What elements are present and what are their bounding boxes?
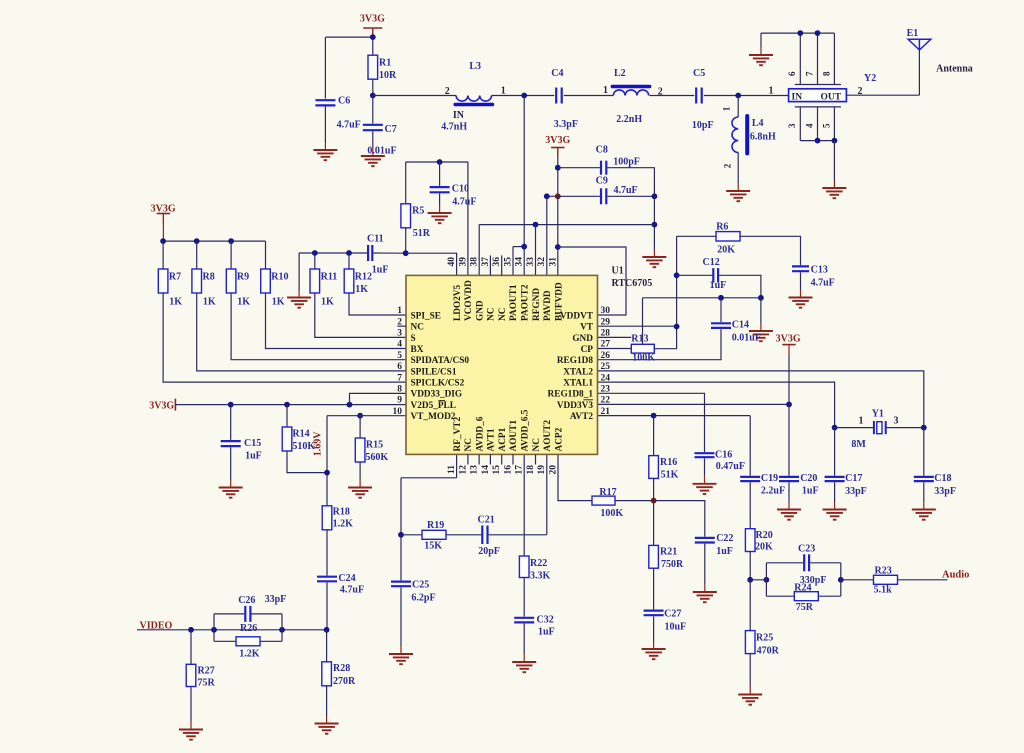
- svg-text:VDDVT: VDDVT: [560, 311, 594, 321]
- svg-text:R7: R7: [169, 272, 181, 283]
- svg-text:NC: NC: [464, 438, 474, 451]
- svg-text:BUFVDD: BUFVDD: [554, 282, 564, 321]
- svg-text:17: 17: [515, 465, 525, 475]
- svg-text:19: 19: [537, 465, 547, 475]
- svg-text:1: 1: [397, 306, 402, 316]
- svg-text:7: 7: [397, 373, 402, 383]
- svg-text:2: 2: [723, 163, 733, 168]
- svg-text:20: 20: [548, 465, 558, 475]
- svg-text:51R: 51R: [413, 228, 431, 239]
- svg-text:R11: R11: [321, 272, 338, 283]
- svg-text:R15: R15: [366, 440, 383, 451]
- svg-text:1.2K: 1.2K: [333, 519, 354, 530]
- svg-text:R26: R26: [240, 623, 257, 634]
- svg-text:R1: R1: [379, 58, 391, 69]
- svg-text:51K: 51K: [661, 470, 679, 481]
- svg-text:RF_VT2: RF_VT2: [453, 417, 463, 452]
- svg-text:REG1D8_1: REG1D8_1: [548, 390, 594, 400]
- svg-text:4.7uF: 4.7uF: [337, 120, 361, 131]
- svg-text:R28: R28: [333, 663, 350, 674]
- svg-text:40: 40: [447, 257, 457, 267]
- svg-text:C18: C18: [934, 473, 951, 484]
- svg-text:R10: R10: [271, 272, 288, 283]
- svg-text:SPI_SE: SPI_SE: [411, 311, 442, 321]
- svg-text:0.01uF: 0.01uF: [732, 333, 761, 344]
- svg-text:100K: 100K: [632, 353, 655, 364]
- svg-text:R24: R24: [794, 583, 811, 594]
- svg-text:470R: 470R: [757, 646, 780, 657]
- svg-text:1uF: 1uF: [802, 486, 819, 497]
- svg-text:16: 16: [503, 465, 513, 475]
- svg-text:C21: C21: [478, 515, 495, 526]
- svg-text:33pF: 33pF: [934, 486, 956, 497]
- svg-text:C13: C13: [811, 265, 828, 276]
- svg-text:1K: 1K: [203, 297, 216, 308]
- svg-text:3: 3: [787, 123, 797, 128]
- svg-text:ACP2: ACP2: [554, 427, 564, 451]
- svg-text:1uF: 1uF: [245, 451, 262, 462]
- svg-text:20K: 20K: [717, 245, 735, 256]
- svg-text:L4: L4: [752, 118, 764, 129]
- svg-text:10pF: 10pF: [692, 120, 714, 131]
- svg-text:11: 11: [447, 465, 457, 474]
- svg-text:XTAL1: XTAL1: [563, 379, 593, 389]
- svg-text:C5: C5: [693, 68, 705, 79]
- svg-text:36: 36: [492, 257, 502, 267]
- svg-text:3V3G: 3V3G: [776, 333, 801, 344]
- svg-text:31: 31: [548, 257, 558, 267]
- svg-text:1K: 1K: [169, 297, 182, 308]
- svg-text:2.2nH: 2.2nH: [616, 114, 642, 125]
- svg-text:C23: C23: [798, 544, 815, 555]
- svg-text:AVT1: AVT1: [487, 428, 497, 451]
- svg-text:15: 15: [492, 465, 502, 475]
- svg-text:R21: R21: [660, 547, 677, 558]
- svg-text:75R: 75R: [796, 602, 814, 613]
- svg-text:VT_MOD2: VT_MOD2: [411, 412, 456, 422]
- svg-text:PAOUT1: PAOUT1: [509, 284, 519, 321]
- svg-text:C20: C20: [800, 473, 817, 484]
- svg-text:10R: 10R: [379, 70, 397, 81]
- svg-text:R16: R16: [660, 457, 677, 468]
- svg-text:IN: IN: [792, 92, 803, 102]
- svg-text:38: 38: [470, 257, 480, 267]
- svg-text:R6: R6: [716, 222, 728, 233]
- svg-text:C8: C8: [596, 145, 608, 156]
- svg-text:C7: C7: [385, 124, 397, 135]
- svg-text:S: S: [411, 334, 416, 344]
- svg-text:75R: 75R: [198, 678, 216, 689]
- svg-text:1K: 1K: [237, 297, 250, 308]
- svg-text:6: 6: [397, 362, 402, 372]
- svg-text:1uF: 1uF: [710, 280, 727, 291]
- svg-text:C26: C26: [238, 595, 255, 606]
- svg-text:20K: 20K: [755, 542, 773, 553]
- svg-text:5.1k: 5.1k: [874, 585, 893, 596]
- svg-text:26: 26: [601, 351, 611, 361]
- svg-text:C4: C4: [551, 68, 563, 79]
- svg-text:12: 12: [458, 465, 468, 475]
- svg-text:6.8nH: 6.8nH: [750, 132, 776, 143]
- svg-text:100K: 100K: [600, 508, 623, 519]
- svg-text:LDO2V5: LDO2V5: [453, 284, 463, 321]
- svg-text:VDD33_DIG: VDD33_DIG: [411, 390, 463, 400]
- svg-text:13: 13: [470, 465, 480, 475]
- svg-text:34: 34: [515, 257, 525, 267]
- svg-text:39: 39: [458, 257, 468, 267]
- svg-text:28: 28: [601, 329, 611, 339]
- svg-text:R17: R17: [599, 487, 616, 498]
- svg-text:U1: U1: [612, 266, 624, 277]
- svg-text:9: 9: [397, 396, 402, 406]
- svg-text:27: 27: [601, 340, 611, 350]
- svg-text:15K: 15K: [424, 541, 442, 552]
- svg-text:R23: R23: [875, 566, 892, 577]
- svg-text:35: 35: [503, 257, 513, 267]
- svg-text:10: 10: [393, 407, 403, 417]
- svg-text:RTC6705: RTC6705: [612, 278, 653, 289]
- svg-text:560K: 560K: [365, 452, 388, 463]
- svg-text:1: 1: [501, 86, 506, 97]
- svg-text:4.7uF: 4.7uF: [811, 278, 835, 289]
- svg-text:8: 8: [397, 385, 402, 395]
- svg-text:0.01uF: 0.01uF: [367, 146, 396, 157]
- svg-text:1.69V: 1.69V: [313, 431, 324, 457]
- svg-text:C16: C16: [715, 450, 732, 461]
- svg-text:24: 24: [601, 373, 611, 383]
- svg-text:R20: R20: [756, 530, 773, 541]
- svg-text:C17: C17: [845, 473, 862, 484]
- svg-text:3.3K: 3.3K: [530, 571, 551, 582]
- svg-text:CP: CP: [581, 345, 594, 355]
- svg-text:C19: C19: [761, 473, 778, 484]
- svg-text:270R: 270R: [333, 676, 356, 687]
- svg-text:ACP1: ACP1: [498, 427, 508, 451]
- svg-text:1uF: 1uF: [716, 546, 733, 557]
- svg-text:10uF: 10uF: [665, 622, 687, 633]
- svg-text:R8: R8: [203, 272, 215, 283]
- svg-text:25: 25: [601, 362, 611, 372]
- svg-text:100pF: 100pF: [613, 157, 640, 168]
- svg-text:6.2pF: 6.2pF: [411, 593, 435, 604]
- svg-text:33pF: 33pF: [265, 594, 287, 605]
- svg-text:1uF: 1uF: [372, 265, 389, 276]
- svg-text:R5: R5: [412, 206, 424, 217]
- svg-text:5: 5: [397, 351, 402, 361]
- svg-text:V2D5_PLL: V2D5_PLL: [411, 401, 456, 411]
- svg-text:VT: VT: [580, 323, 594, 333]
- svg-text:XTAL2: XTAL2: [563, 367, 593, 377]
- svg-text:22: 22: [601, 396, 611, 406]
- svg-text:21: 21: [601, 407, 611, 417]
- svg-text:AVDD_6.5: AVDD_6.5: [521, 409, 531, 451]
- svg-text:R13: R13: [631, 334, 648, 345]
- svg-text:Audio: Audio: [942, 570, 969, 581]
- svg-text:SPILE/CS1: SPILE/CS1: [411, 367, 457, 377]
- svg-text:L3: L3: [469, 61, 481, 72]
- svg-text:Y2: Y2: [864, 73, 876, 84]
- svg-text:VDD3V3: VDD3V3: [557, 401, 594, 411]
- svg-text:Antenna: Antenna: [936, 64, 973, 75]
- svg-text:SPIDATA/CS0: SPIDATA/CS0: [411, 356, 470, 366]
- svg-text:2: 2: [445, 86, 450, 97]
- svg-text:18: 18: [526, 465, 536, 475]
- svg-text:R27: R27: [198, 666, 215, 677]
- svg-text:REG1D8: REG1D8: [557, 356, 594, 366]
- svg-text:PAOUT2: PAOUT2: [521, 284, 531, 321]
- svg-text:C11: C11: [367, 234, 384, 245]
- svg-text:1uF: 1uF: [538, 627, 555, 638]
- svg-text:1K: 1K: [355, 284, 368, 295]
- svg-text:2: 2: [658, 87, 663, 98]
- svg-text:6: 6: [787, 71, 797, 76]
- svg-text:C15: C15: [244, 438, 261, 449]
- svg-text:3.3pF: 3.3pF: [554, 119, 578, 130]
- svg-text:1: 1: [722, 106, 732, 111]
- svg-text:OUT: OUT: [821, 92, 842, 102]
- svg-text:R22: R22: [530, 558, 547, 569]
- svg-text:750R: 750R: [661, 559, 684, 570]
- svg-text:3V3G: 3V3G: [149, 401, 174, 412]
- svg-text:BX: BX: [411, 345, 424, 355]
- svg-text:NC: NC: [487, 308, 497, 321]
- svg-text:33: 33: [526, 257, 536, 267]
- svg-text:4: 4: [804, 123, 814, 128]
- svg-text:RFGND: RFGND: [532, 288, 542, 321]
- svg-text:GND: GND: [572, 334, 593, 344]
- svg-text:AVDD_6: AVDD_6: [475, 416, 485, 451]
- svg-text:37: 37: [481, 257, 491, 267]
- svg-text:C10: C10: [452, 184, 469, 195]
- svg-text:VCOVDD: VCOVDD: [464, 280, 474, 321]
- svg-text:3V3G: 3V3G: [151, 203, 176, 214]
- svg-text:1K: 1K: [272, 297, 285, 308]
- svg-text:4.7uF: 4.7uF: [340, 585, 364, 596]
- svg-text:8M: 8M: [851, 439, 866, 450]
- svg-text:E1: E1: [907, 28, 919, 39]
- svg-text:7: 7: [804, 71, 814, 76]
- svg-text:C9: C9: [596, 176, 608, 187]
- svg-text:C32: C32: [537, 615, 554, 626]
- svg-text:4.7uF: 4.7uF: [614, 185, 638, 196]
- svg-text:L2: L2: [614, 68, 626, 79]
- svg-text:23: 23: [601, 385, 611, 395]
- svg-text:C27: C27: [664, 609, 681, 620]
- svg-text:4.7nH: 4.7nH: [441, 122, 467, 133]
- svg-text:14: 14: [481, 465, 491, 475]
- svg-text:3V3G: 3V3G: [360, 14, 385, 25]
- svg-text:C14: C14: [732, 320, 749, 331]
- svg-text:Y1: Y1: [872, 409, 884, 420]
- svg-text:4: 4: [397, 340, 402, 350]
- svg-text:4.7uF: 4.7uF: [452, 197, 476, 208]
- svg-text:29: 29: [601, 317, 611, 327]
- svg-text:C12: C12: [703, 257, 720, 268]
- svg-text:R12: R12: [355, 272, 372, 283]
- svg-text:NC: NC: [532, 438, 542, 451]
- svg-text:R14: R14: [292, 429, 309, 440]
- svg-text:IN: IN: [453, 110, 465, 121]
- svg-text:3: 3: [894, 416, 899, 427]
- svg-text:3: 3: [397, 329, 402, 339]
- svg-text:C6: C6: [338, 96, 350, 107]
- svg-text:32: 32: [537, 257, 547, 267]
- svg-text:1: 1: [603, 85, 608, 96]
- svg-text:1K: 1K: [321, 297, 334, 308]
- svg-text:3V3G: 3V3G: [545, 135, 570, 146]
- svg-text:R19: R19: [427, 520, 444, 531]
- svg-text:C22: C22: [716, 533, 733, 544]
- svg-text:2: 2: [397, 317, 402, 327]
- svg-text:30: 30: [601, 306, 611, 316]
- svg-text:0.47uF: 0.47uF: [716, 461, 745, 472]
- svg-text:R9: R9: [237, 272, 249, 283]
- svg-text:R18: R18: [333, 507, 350, 518]
- svg-text:C24: C24: [338, 573, 355, 584]
- svg-text:R25: R25: [756, 633, 773, 644]
- svg-text:2.2uF: 2.2uF: [761, 486, 785, 497]
- svg-text:20pF: 20pF: [478, 546, 500, 557]
- svg-text:NC: NC: [411, 323, 424, 333]
- svg-text:GND: GND: [475, 300, 485, 321]
- svg-text:AOUT2: AOUT2: [543, 420, 553, 452]
- svg-text:AOUT1: AOUT1: [509, 420, 519, 452]
- svg-text:8: 8: [821, 71, 831, 76]
- svg-text:AVT2: AVT2: [570, 412, 593, 422]
- svg-text:1: 1: [769, 86, 774, 97]
- svg-text:1.2K: 1.2K: [239, 649, 259, 660]
- svg-text:SPICLK/CS2: SPICLK/CS2: [411, 379, 465, 389]
- svg-text:1: 1: [859, 416, 864, 427]
- svg-text:PAVDD: PAVDD: [543, 290, 553, 321]
- svg-text:NC: NC: [498, 308, 508, 321]
- svg-text:33pF: 33pF: [845, 486, 867, 497]
- svg-text:5: 5: [821, 123, 831, 128]
- svg-text:C25: C25: [412, 580, 429, 591]
